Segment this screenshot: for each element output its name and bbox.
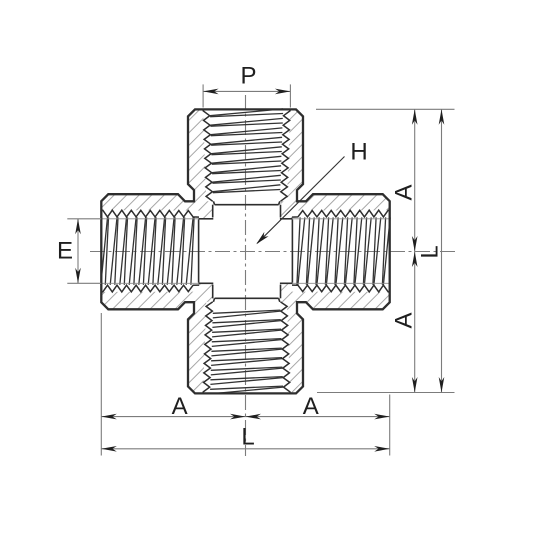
right bore thread flanks (297, 217, 390, 284)
left bore upper crest line (101, 218, 199, 220)
bottom extension lines (101, 313, 389, 456)
svg-text:P: P (240, 62, 256, 89)
dimension E lines (67, 219, 101, 283)
section hatching (0, 97, 546, 405)
bore runout walls and end shoulders (199, 201, 293, 302)
bottom bore right thread profile (281, 302, 291, 394)
dimension A lower right arrows (412, 252, 418, 268)
bottom bore left thread profile (203, 302, 213, 394)
svg-text:L: L (417, 245, 444, 258)
svg-text:A: A (391, 312, 418, 328)
dimension A bottom left arrows (101, 414, 117, 420)
leader H (257, 157, 344, 244)
top bore left thread profile (203, 109, 213, 201)
left bore lower thread profile (101, 285, 199, 292)
svg-text:A: A (172, 393, 188, 420)
svg-text:A: A (303, 393, 319, 420)
dimension L right arrows (439, 109, 445, 125)
dimension A upper right arrows (412, 109, 418, 125)
svg-text:H: H (350, 138, 367, 165)
top bore thread flanks (210, 109, 283, 193)
dimension P extension lines (203, 84, 290, 107)
dimension P arrows (203, 89, 219, 95)
svg-text:A: A (391, 184, 418, 200)
left bore lower crest line (101, 282, 199, 284)
body outline (101, 109, 389, 393)
right bore upper thread profile (292, 210, 390, 217)
horizontal centerline (90, 251, 455, 253)
left bore thread flanks (101, 217, 194, 284)
dimension E arrows (75, 219, 81, 235)
dimension A bottom right arrows (246, 414, 262, 420)
right side extension lines (316, 109, 455, 392)
bottom bore thread flanks (210, 310, 283, 394)
svg-text:L: L (241, 424, 254, 451)
svg-text:E: E (57, 238, 73, 265)
right bore lower crest line (292, 282, 390, 284)
right bore lower thread profile (292, 285, 390, 292)
right bore upper crest line (292, 218, 390, 220)
top bore right thread profile (281, 109, 291, 201)
left bore upper thread profile (101, 210, 199, 217)
vertical centerline (245, 95, 247, 456)
dimension L bottom arrows (101, 446, 117, 452)
